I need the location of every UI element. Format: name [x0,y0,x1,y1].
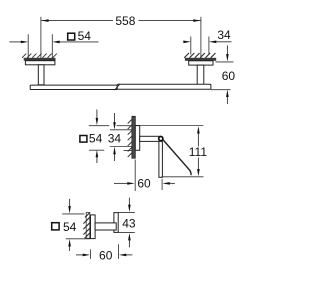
label square-54 top: square symbol [68,33,75,40]
dimension 60 top: upper arrow pointing down to wall line [226,45,228,55]
middle view vertical holder bar [159,141,163,177]
middle view flap diagonal [163,140,191,175]
dimension square-54 top: right arrow and line under label [59,41,99,43]
dimension 558 right extension line [200,17,202,60]
svg-text:54: 54 [78,29,92,43]
svg-text:34: 34 [108,132,122,146]
left mount wall band [24,58,56,61]
dimension 60 bottom: left extension line [89,249,91,259]
towel bar break mark [115,84,120,90]
svg-text:111: 111 [189,145,208,159]
dimension 60 bottom: left arrow [76,254,85,256]
dimension 34 middle: extension lines [110,129,132,131]
label square-54 bottom: square symbol [52,223,59,230]
right mount flange [189,61,213,65]
dimension 60 bottom: right arrow [125,254,133,256]
dimension square-54 bottom: top arrow [69,199,71,208]
left mount wall hatch [22,54,57,58]
bottom view: square-54 bottom extension line [66,238,90,240]
right mount wall hatch [184,53,215,58]
dimension square-54 middle: bottom arrow [96,156,98,163]
wall surface extension line right mount [216,61,234,63]
svg-text:60: 60 [137,177,151,191]
bottom view: square-54 top extension line [62,213,84,215]
dimension 34 top: extension lines [190,37,192,55]
right mount post [197,65,204,85]
dimension 558 line [41,20,200,22]
dimension 60 middle: left extension line [134,160,136,192]
svg-text:34: 34 [217,28,231,42]
middle view: extension line y125.7 (plate top, to 111 dim) [89,125,109,127]
dimension 34 middle: top arrow [114,113,116,124]
left mount post [38,65,44,85]
dimension 60 middle: left arrow [114,182,129,184]
right mount wall band [185,58,216,61]
svg-text:558: 558 [115,14,135,28]
label square-54 middle: square symbol [80,136,87,143]
dimension 34 middle: bottom arrow [114,153,116,161]
dimension square-54 top: left arrow [9,41,21,43]
bar bottom extension line [211,89,231,91]
towel bar right segment [117,84,211,89]
dimension 60 top: lower arrow pointing up to bar bottom [226,96,228,104]
dimension square-54 top: extension lines [27,34,29,58]
middle view mounting plate [135,126,139,151]
dimension 34 top: right arrow and line under label [216,41,232,43]
left mount flange [25,61,55,65]
middle view wall hatch [128,117,134,157]
dimension 558 left arrowhead [41,19,48,22]
dimension 111: bottom extension line [162,176,204,178]
svg-text:54: 54 [89,132,103,146]
dimension 43: bottom arrow [128,239,130,247]
dimension 43: bottom extension line [118,232,134,234]
dimension 43: top extension line [118,211,134,213]
dimension square-54 middle: top arrow [96,110,98,120]
dimension 60 bottom: right extension line [118,244,120,259]
dimension 60 middle: right arrow [168,182,175,184]
middle view arm [140,136,161,141]
svg-text:54: 54 [63,220,77,234]
bottom view arm [95,223,116,230]
middle view: extension line y150.2 (plate bottom) [89,149,104,151]
dimension 558 left extension line [40,17,42,60]
dimension 558 right arrowhead [193,19,200,22]
svg-text:43: 43 [122,216,136,230]
svg-text:60: 60 [99,249,113,263]
middle view pivot circle [159,137,163,141]
towel bar left segment [30,85,117,89]
middle view wall strip [132,116,135,158]
dimension 60 middle: right extension line [161,179,163,190]
bottom view mounting plate [91,215,96,239]
bottom view hook block [114,213,118,233]
dimension square-54 bottom: bottom arrow [69,245,71,251]
dimension 111: vertical line with arrows [197,130,199,147]
svg-text:60: 60 [222,69,236,83]
dimension 43: top arrow [128,198,130,206]
bottom view wall strip [86,213,90,239]
dimension 34 top: left arrow [183,41,184,43]
bottom view wall hatch [0,0,1,1]
